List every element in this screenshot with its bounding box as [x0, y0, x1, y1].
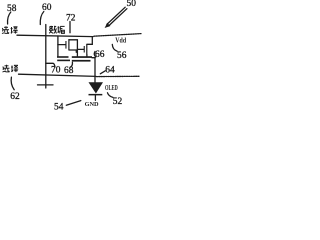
- svg-text:Vdd: Vdd: [115, 36, 126, 45]
- svg-text:58: 58: [7, 4, 17, 14]
- svg-text:72: 72: [66, 14, 76, 24]
- svg-text:GND: GND: [85, 101, 99, 108]
- svg-text:50: 50: [127, 0, 137, 9]
- svg-text:64: 64: [105, 65, 115, 75]
- svg-text:66: 66: [95, 50, 105, 60]
- svg-text:68: 68: [64, 66, 74, 76]
- svg-text:62: 62: [10, 92, 20, 102]
- svg-text:54: 54: [54, 103, 64, 113]
- svg-text:56: 56: [117, 51, 127, 61]
- svg-text:52: 52: [113, 97, 123, 107]
- svg-text:OLED: OLED: [105, 84, 118, 92]
- svg-text:60: 60: [42, 3, 52, 13]
- svg-text:70: 70: [51, 65, 61, 75]
